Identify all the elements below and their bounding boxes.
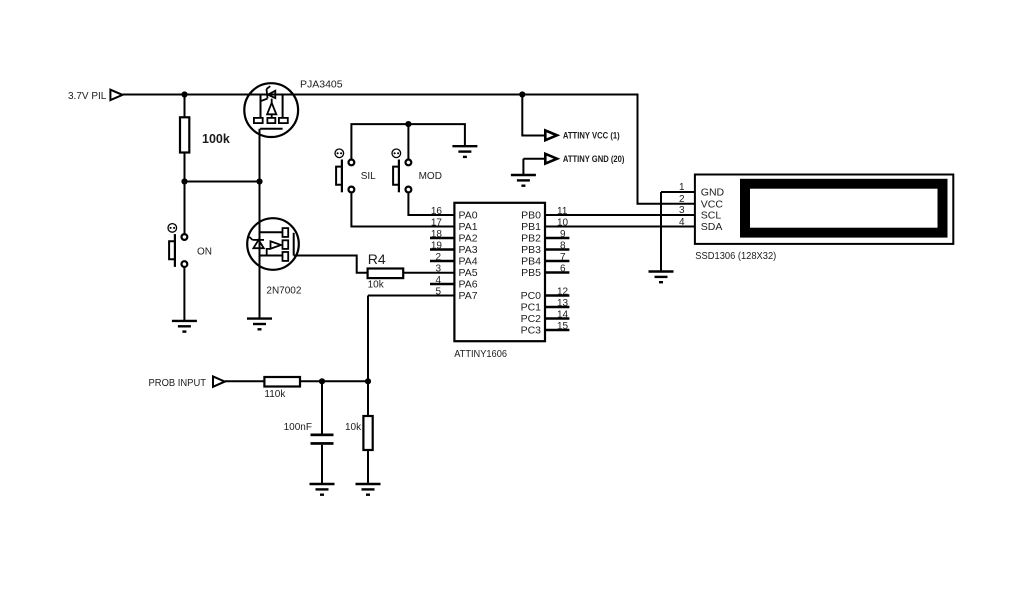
svg-text:2: 2	[435, 252, 441, 263]
svg-text:SCL: SCL	[701, 210, 722, 222]
svg-text:SDA: SDA	[701, 221, 723, 233]
svg-text:GND: GND	[701, 187, 725, 199]
svg-text:1: 1	[679, 182, 685, 193]
svg-text:R4: R4	[368, 251, 386, 267]
svg-text:ATTINY GND (20): ATTINY GND (20)	[563, 154, 625, 164]
svg-text:14: 14	[557, 310, 569, 321]
svg-text:PB4: PB4	[521, 256, 541, 268]
svg-text:VCC: VCC	[701, 198, 724, 210]
svg-text:PA7: PA7	[459, 290, 478, 302]
svg-text:PA5: PA5	[459, 267, 478, 279]
svg-text:19: 19	[431, 241, 443, 252]
svg-text:4: 4	[679, 217, 685, 228]
svg-text:PA0: PA0	[459, 210, 478, 222]
svg-text:13: 13	[557, 298, 569, 309]
svg-text:PJA3405: PJA3405	[300, 79, 343, 91]
svg-text:18: 18	[431, 229, 443, 240]
svg-text:3: 3	[679, 205, 685, 216]
svg-text:PA6: PA6	[459, 279, 478, 291]
svg-text:PB3: PB3	[521, 244, 541, 256]
svg-text:2: 2	[679, 194, 685, 205]
svg-text:6: 6	[560, 264, 566, 275]
svg-text:PC2: PC2	[521, 313, 542, 325]
svg-text:4: 4	[435, 275, 441, 286]
svg-text:3.7V PIL: 3.7V PIL	[68, 91, 107, 102]
svg-text:7: 7	[560, 252, 566, 263]
svg-text:2N7002: 2N7002	[266, 286, 301, 297]
svg-text:16: 16	[431, 206, 443, 217]
svg-text:110k: 110k	[264, 389, 286, 400]
svg-text:5: 5	[435, 287, 441, 298]
svg-text:PA1: PA1	[459, 221, 478, 233]
svg-text:ATTINY1606: ATTINY1606	[454, 349, 507, 360]
svg-text:PA3: PA3	[459, 244, 478, 256]
svg-text:PB1: PB1	[521, 221, 541, 233]
svg-text:SIL: SIL	[361, 171, 376, 182]
svg-text:SSD1306 (128X32): SSD1306 (128X32)	[695, 251, 776, 262]
svg-text:9: 9	[560, 229, 566, 240]
svg-text:PB5: PB5	[521, 267, 541, 279]
svg-text:100nF: 100nF	[284, 422, 312, 433]
svg-text:PROB INPUT: PROB INPUT	[149, 378, 207, 389]
svg-text:17: 17	[431, 218, 443, 229]
svg-text:10k: 10k	[368, 280, 385, 291]
svg-text:8: 8	[560, 241, 566, 252]
svg-text:PC3: PC3	[521, 325, 542, 337]
svg-text:MOD: MOD	[419, 171, 442, 182]
svg-text:PC1: PC1	[521, 302, 542, 314]
svg-text:PB2: PB2	[521, 233, 541, 245]
svg-text:ATTINY VCC (1): ATTINY VCC (1)	[563, 131, 620, 141]
svg-text:PA2: PA2	[459, 233, 478, 245]
svg-text:100k: 100k	[202, 132, 230, 146]
svg-text:3: 3	[435, 264, 441, 275]
svg-text:PC0: PC0	[521, 290, 542, 302]
svg-text:12: 12	[557, 287, 569, 298]
svg-text:10k: 10k	[345, 422, 362, 433]
svg-text:11: 11	[557, 206, 568, 217]
svg-text:PB0: PB0	[521, 210, 541, 222]
svg-text:ON: ON	[197, 246, 212, 257]
svg-text:15: 15	[557, 321, 569, 332]
svg-text:PA4: PA4	[459, 256, 478, 268]
svg-text:10: 10	[557, 218, 569, 229]
